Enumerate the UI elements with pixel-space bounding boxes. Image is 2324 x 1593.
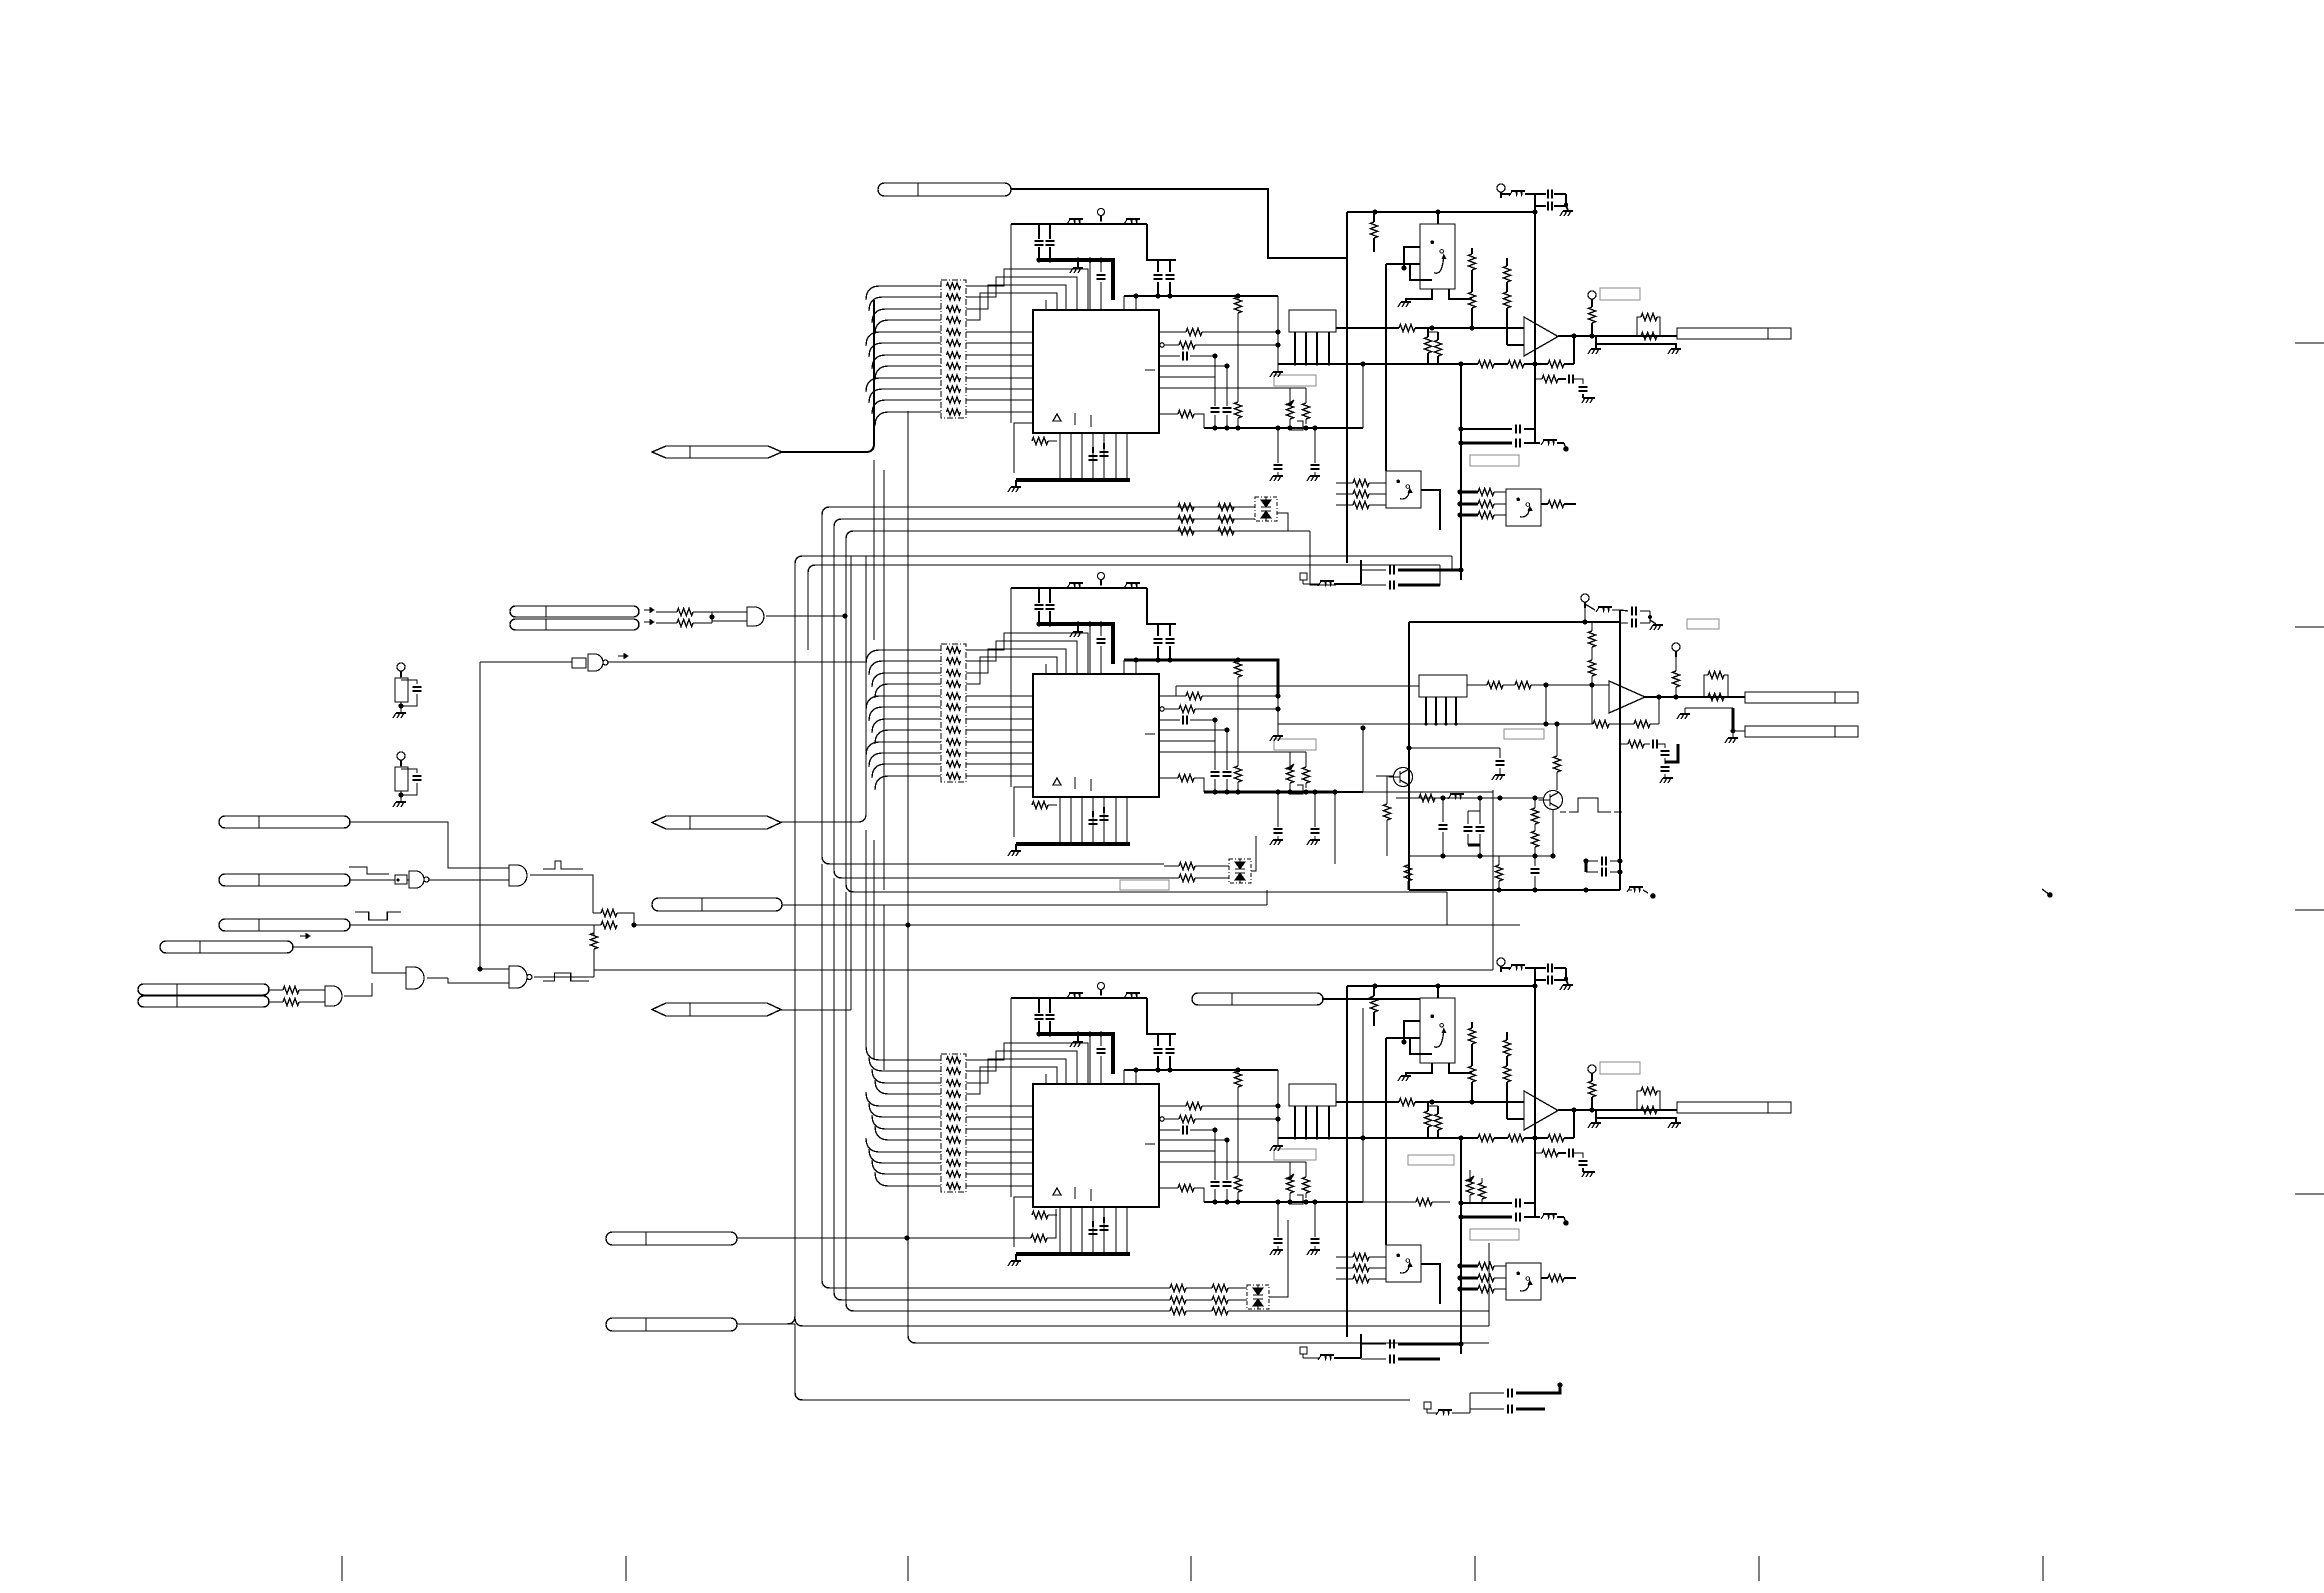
VCC A out (1497, 184, 1505, 192)
ground A vcc caps (1566, 206, 1568, 210)
ground rail U2 (1016, 842, 1130, 846)
res pair A output (1637, 317, 1641, 336)
wire U3 row6 (1159, 1150, 1215, 1152)
res chain C -in (1506, 1032, 1508, 1040)
wire OUT-B2 stub (1685, 707, 1733, 709)
wire IN-A to stage (1011, 189, 1347, 258)
signal flag BOT1 (652, 446, 782, 458)
arrow G2 out (618, 655, 628, 657)
res chain A -in (1506, 258, 1508, 266)
wire U1 bottom left pin (1014, 423, 1033, 473)
res mid bottom a (1408, 862, 1410, 865)
wire U1 y296 stub (1133, 293, 1138, 298)
wire A fb drop (1460, 364, 1462, 580)
power rail U2 (1011, 587, 1147, 589)
wire C vcc drop (1534, 968, 1536, 1217)
wire U2 pin elbow (1123, 660, 1125, 675)
res U3 rail ext (1363, 1201, 1416, 1203)
wires array to IC U3 (966, 1105, 1033, 1107)
transistor block C QC (1506, 1263, 1541, 1300)
wire IN-C to stage (1323, 998, 1420, 1000)
wires array to IC U1 (966, 331, 1033, 333)
and gate G5 (509, 966, 527, 988)
feedback rail C (1278, 1137, 1478, 1139)
wire rail top A (1347, 211, 1535, 213)
cap U2 row4 (1159, 719, 1180, 721)
cap mid b1 (1442, 798, 1444, 822)
border tick right 1 (2295, 342, 2324, 344)
ferrite bead L U1 (1069, 218, 1083, 220)
bead A coupling (1543, 439, 1557, 441)
wire U3 x1363 up (1362, 1008, 1364, 1138)
caps C corner (1470, 1392, 1504, 1394)
wire MID2 (782, 904, 1267, 906)
VCC C opamp (1588, 1065, 1596, 1073)
IC U3 pin-1 bar (1145, 1143, 1155, 1145)
value label C opamp (1600, 1062, 1640, 1074)
wire nest paths U1 (966, 269, 1088, 311)
ground A fb (1585, 397, 1595, 399)
trimmer C +in (1427, 1102, 1429, 1111)
res A r-top (1373, 212, 1375, 222)
wire U1 x1227 (1226, 366, 1228, 406)
pulse label mid (1569, 798, 1611, 812)
bead mid bottom (1629, 886, 1643, 888)
wire mid left rail (1408, 622, 1410, 890)
res C qb inputs (1336, 1256, 1353, 1258)
res clk a (656, 611, 677, 613)
IC U1 pin-1 bar (1145, 369, 1155, 371)
wire U2 y296 stub (1133, 657, 1138, 662)
bus vertical v3 (834, 519, 1255, 878)
wire A output (1558, 335, 1677, 337)
border tick right 2 (2295, 626, 2324, 628)
wire SIG2 (350, 879, 395, 881)
trimmer U2 (1289, 752, 1291, 767)
wire U1 row y296 (1124, 295, 1278, 297)
bus vertical v6 (907, 411, 909, 1238)
res SIG5 b (269, 1001, 283, 1003)
res U1 row3 inv (1160, 343, 1164, 347)
wire left rail C (1346, 986, 1348, 1337)
border tick bottom 3 (907, 1556, 909, 1581)
wire C qtop base (1404, 1021, 1420, 1042)
wire rail top C (1347, 985, 1535, 987)
wire bead right drop U1 (1147, 224, 1176, 260)
res bottom h1 (1170, 1285, 1186, 1292)
ground U2 bus (1077, 624, 1079, 631)
wire SIG4 (293, 947, 406, 973)
res U1 row2 (1159, 331, 1186, 333)
rail mid top (1409, 621, 1620, 623)
wire U2 pin stub a (1089, 624, 1091, 675)
signal flag IN-A (878, 183, 1011, 196)
signal flag LOW1 (606, 1232, 737, 1245)
bead A out (1501, 193, 1511, 195)
res U1 row7 (1159, 413, 1178, 415)
rail U2 y428 (1204, 791, 1363, 793)
res G5 v (593, 933, 595, 935)
wire MID3 (781, 1009, 851, 1011)
wire U3 y296 stub (1133, 1067, 1138, 1072)
resistor array RA U3 (941, 1054, 966, 1192)
border tick bottom 5 (1474, 1556, 1476, 1581)
caps mid vcc (1620, 610, 1628, 611)
res A opamp pullup (1591, 305, 1593, 307)
signal flag A output (1677, 328, 1791, 339)
res U2 row7 (1159, 777, 1178, 779)
caps pair right U3 (1157, 1034, 1159, 1046)
op-amp U C (1524, 1091, 1558, 1130)
pin C square2 (1424, 1402, 1431, 1409)
res U3 row7 (1159, 1187, 1178, 1189)
bead A bottom (1320, 580, 1334, 582)
caps A bottom pair (1361, 569, 1386, 571)
wire nest paths U3 (966, 1043, 1088, 1085)
res A fb lower (1535, 364, 1542, 379)
ground rail U1 (1016, 478, 1130, 482)
cap U1 row4 (1159, 355, 1180, 357)
bead mid out (1585, 604, 1595, 610)
res chain A +in (1471, 248, 1473, 254)
cap U2 c3 (1100, 624, 1102, 636)
ground C fb (1585, 1171, 1595, 1173)
wire C -in (1507, 1118, 1524, 1120)
wire U2 bottom left pin (1014, 787, 1033, 837)
wire A qb out (1421, 490, 1440, 530)
bus bottom h2 (834, 1292, 1170, 1300)
IC U2 bottom pins (1059, 797, 1061, 844)
bead mid base (1450, 793, 1464, 795)
value label A opamp (1600, 288, 1640, 300)
ground U2 delay rail (1277, 728, 1279, 735)
res A qc inputs (1460, 491, 1478, 494)
signal flag SIG3 (219, 919, 350, 931)
res pair y507 (1178, 504, 1194, 511)
IC U1 top pin (1045, 300, 1047, 311)
IC U2 top pin (1045, 664, 1047, 675)
nand gate G3 (395, 875, 407, 884)
signal flag MID2 (652, 898, 782, 911)
wire U1 x1278 upper (1277, 296, 1279, 364)
ferrite bead L U3 (1069, 992, 1083, 994)
IC U3 video driver (1033, 1084, 1159, 1207)
res D2 b (1164, 877, 1179, 879)
VCC A opamp (1588, 291, 1596, 299)
value label U1 trim (1274, 375, 1316, 386)
res U2 row2 (1159, 695, 1186, 697)
wire y531 drop right (1310, 531, 1336, 585)
pullup RC2 (397, 752, 405, 760)
value label mid top (1687, 619, 1719, 629)
wire U2 y792 ext (1335, 791, 1493, 793)
ground U3 delay rail (1277, 1138, 1279, 1145)
res pair y531 (1178, 528, 1194, 535)
wire C block drop (1385, 1038, 1387, 1245)
bypass caps U3 (1038, 998, 1040, 1013)
res C opamp pullup (1591, 1079, 1593, 1081)
transistor block A QB (1386, 471, 1421, 508)
feedback mid (1658, 697, 1660, 724)
rail U3 y428 (1204, 1201, 1363, 1203)
signal flag C output (1677, 1102, 1791, 1113)
delay line DL A (1289, 310, 1336, 332)
wire mid right rail (1619, 610, 1621, 890)
bus vertical v7 fans (873, 300, 875, 444)
cap U2 gnd b (1314, 792, 1316, 827)
transistor block C Q-top (1420, 998, 1455, 1063)
signal flag IN-C (1192, 993, 1323, 1005)
bus verticals to bottom fan (865, 830, 867, 1050)
wire y970 long (594, 969, 1493, 971)
wire nest paths U2 (966, 633, 1088, 675)
dual diode D1 (1255, 497, 1277, 521)
power rail U3 (1011, 997, 1147, 999)
ferrite bead R U1 (1126, 218, 1140, 220)
res mid q4 chain (1534, 798, 1536, 808)
wire A q collector (1449, 289, 1472, 299)
nand gate G2 (572, 658, 586, 668)
cap U1 c3 (1100, 260, 1102, 272)
signal flag SIG1 (219, 816, 350, 828)
signal flag MID3 (652, 1003, 781, 1016)
signal flag SIG2 (219, 874, 350, 886)
bus bottom h3 (846, 1303, 1170, 1311)
trimmer A +in (1427, 328, 1429, 337)
ferrite bead R U3 (1126, 992, 1140, 994)
wire C qtop inner (1410, 1038, 1432, 1054)
wire y925 jog (1446, 892, 1448, 925)
bus wire y556 (795, 556, 1452, 564)
wire C +in (1336, 1101, 1399, 1103)
pulse label G4 (543, 861, 583, 869)
wire G1 out (766, 615, 845, 617)
res U1 bottom (1032, 438, 1048, 445)
and gate G4 (509, 865, 527, 886)
bus bottom h6 (795, 1324, 1410, 1400)
res U2 x1238 (1237, 660, 1239, 662)
ground rail U3 (1016, 1252, 1130, 1256)
res mid bottom b (1498, 856, 1500, 865)
signal flag SIG4 (160, 941, 293, 953)
wire U3 pin elbow (1123, 1070, 1125, 1085)
res C fb lower (1535, 1138, 1542, 1153)
bus bottom h4 (795, 1316, 1489, 1326)
bus vertical v1 (737, 564, 795, 1324)
cap U1 gnd b (1314, 428, 1316, 463)
wire D1 out (1277, 513, 1288, 531)
ground loop A under output (1596, 336, 1676, 348)
wire G6 out (427, 977, 448, 979)
resistor array RA U1 (941, 280, 966, 418)
caps C fb (1558, 1152, 1566, 1154)
cap mid y748 (1499, 748, 1501, 758)
wire U2 row6 (1159, 740, 1215, 742)
feedback rail A (1278, 363, 1478, 365)
bead C bottom (1320, 1354, 1334, 1356)
wire G6 route (448, 978, 509, 983)
value label D2 (1120, 880, 1169, 890)
VCC mid out (1581, 594, 1589, 602)
and gate G6 (406, 967, 424, 989)
signal flag OUT-B2 (1745, 726, 1858, 737)
wire G5 out (534, 976, 594, 978)
wire mid q4 emitter (1552, 810, 1554, 856)
res mid chain (1591, 622, 1593, 631)
transistor Q4 mid (1544, 791, 1563, 810)
wire D3 out (1269, 1220, 1288, 1297)
wire G7 out (344, 983, 372, 996)
wire U3 x1227 (1226, 1140, 1228, 1180)
ferrite bead L U2 (1069, 582, 1083, 584)
wire mid q3 base (1376, 775, 1394, 777)
pullup RC1 (397, 663, 405, 671)
pin A bottom (1300, 573, 1307, 580)
res mid q3 base (1386, 776, 1388, 804)
ground U1 delay rail (1277, 364, 1279, 371)
wire U3 y388 (1159, 1161, 1306, 1163)
ground U1 bus (1077, 260, 1079, 267)
feedback tap A (1573, 336, 1575, 364)
bead C out (1501, 967, 1511, 969)
cap U2 gnd a (1277, 792, 1279, 827)
IC U2 video driver (1033, 674, 1159, 797)
res D2 a (1164, 865, 1179, 867)
ground bus U1 (1038, 260, 1113, 300)
res pair y519 (1178, 516, 1194, 523)
wire U3 bottom left pin (1014, 1197, 1033, 1247)
VCC supply U1 (1098, 209, 1105, 216)
caps U1 bottom (1092, 447, 1094, 453)
res U2 bottom (1032, 802, 1048, 809)
wire vcc left drop U2 (1010, 588, 1012, 787)
wire U2 x1227 (1226, 730, 1228, 770)
signal flag MID1 (652, 816, 781, 829)
bus vertical v4 (846, 531, 1447, 892)
res U3 row2 (1159, 1105, 1186, 1107)
res bottom h3 (1170, 1308, 1186, 1315)
wire left rail A (1346, 212, 1348, 563)
wire vcc left drop U1 (1010, 224, 1012, 423)
res chain C +in (1471, 1022, 1473, 1028)
ground mid vcc (1650, 620, 1656, 624)
wire U2 row5 (1159, 729, 1227, 731)
ground U3 rail (1015, 1254, 1017, 1260)
border tick right 4 (2295, 1193, 2324, 1195)
border tick bottom 1 (341, 1556, 343, 1581)
res U1 x1238 (1237, 296, 1239, 298)
IC U1 video driver (1033, 310, 1159, 433)
border tick bottom 6 (1758, 1556, 1760, 1581)
wire MID1 (781, 560, 866, 822)
cap U3 row4 (1159, 1129, 1180, 1131)
wire LOW1 (737, 1237, 1031, 1239)
op-amp U A (1524, 317, 1558, 356)
bus wire y565 (808, 565, 1440, 650)
res SIG5 a (269, 989, 283, 991)
wire A swing (1386, 263, 1420, 265)
res LOW1 (1031, 1235, 1047, 1242)
res C qc inputs (1460, 1265, 1478, 1268)
bus fan feeds mid (865, 556, 867, 814)
bus bottom h1 (822, 1280, 1170, 1288)
wire C q collector (1449, 1063, 1472, 1073)
caps U2 bottom (1092, 811, 1094, 817)
step waveform w1 (349, 867, 389, 874)
wire U2 x1278 upper (1277, 660, 1279, 728)
dual diode D3 (1247, 1285, 1269, 1309)
wire clk join (704, 611, 712, 613)
wire A qtop inner (1410, 264, 1432, 280)
signal flag CLK double (510, 606, 639, 617)
fan wires U2 (866, 650, 941, 664)
bead C coupling (1543, 1213, 1557, 1215)
delay line DL C (1289, 1084, 1336, 1106)
wire U1 x1215 (1214, 356, 1216, 406)
wire U3 row5 (1159, 1139, 1227, 1141)
rail mid bottom (1409, 889, 1620, 891)
arrow SIG4 (300, 935, 310, 937)
wire C bottom vertical (1360, 1334, 1362, 1358)
wire U1 row6 (1159, 376, 1215, 378)
wire SIG1 (350, 822, 509, 868)
wire G4 out (530, 875, 593, 913)
cap U1 gnd a (1277, 428, 1279, 463)
and gate G7 (325, 986, 342, 1006)
wire U2 x1363 (1362, 728, 1364, 792)
wire U1 pin elbow (1123, 296, 1125, 311)
bypass caps U1 (1038, 224, 1040, 239)
ground C qtop (1406, 1063, 1432, 1075)
wire U2 pin stub b (1135, 660, 1137, 675)
ground bus U2 (1038, 624, 1113, 664)
transistor block A QC (1506, 489, 1541, 526)
wire A vcc drop (1534, 194, 1536, 443)
transistor block C QB (1386, 1245, 1421, 1282)
res pair C output (1637, 1091, 1641, 1110)
pin C bottom (1300, 1347, 1307, 1354)
res C qc out (1541, 1277, 1548, 1279)
wire mid output (1645, 696, 1745, 698)
wire LOW2 (737, 1323, 795, 1325)
wire U1 pin stub a (1089, 260, 1091, 311)
wire U3 pin stub a (1089, 1034, 1091, 1085)
bus bottom h5 (908, 1238, 1489, 1343)
wire G2 out (607, 661, 866, 663)
rail mid mid (1409, 855, 1544, 857)
dual diode D2 (1229, 859, 1251, 883)
caps C vcc pair (1535, 967, 1546, 969)
caps U3 bottom (1092, 1221, 1094, 1227)
arrow clk b (644, 621, 654, 623)
transistor block A Q-top (1420, 224, 1455, 289)
op-amp U mid (1609, 681, 1645, 713)
cap mid bottom (1534, 856, 1536, 866)
wire A +in (1336, 327, 1399, 329)
power rail U1 (1011, 223, 1147, 225)
wire U2 y686 long (1176, 685, 1419, 687)
feedback tap C (1573, 1110, 1575, 1138)
value label A mid (1470, 455, 1519, 466)
res U2 row3 inv (1160, 707, 1164, 711)
caps mid coupling (1586, 860, 1598, 862)
border tick bottom 2 (625, 1556, 627, 1581)
border tick right 3 (2295, 909, 2324, 911)
wire C output (1558, 1109, 1677, 1111)
caps mid fb (1644, 743, 1650, 745)
caps pair right U2 (1157, 624, 1159, 636)
coupling caps A (1461, 428, 1512, 430)
